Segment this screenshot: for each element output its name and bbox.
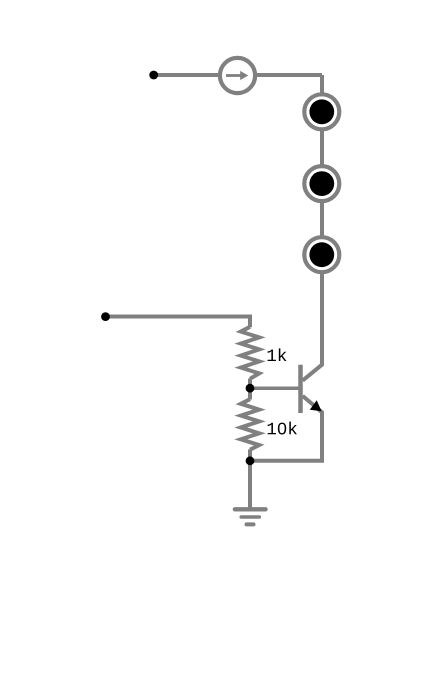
wire emitter to node B — [250, 396, 322, 461]
label 10k — [268, 422, 297, 435]
LED D2 — [304, 166, 339, 201]
resistor R2 10k zigzag — [241, 399, 259, 450]
transistor Q1 NPN — [301, 365, 322, 413]
wire base from node A to transistor base bar — [250, 386, 301, 390]
wire top rail from input terminal to corner — [154, 73, 323, 77]
ground — [235, 509, 266, 524]
wire resistor R1 bottom lead to node A — [248, 379, 252, 389]
node A junction dot — [246, 384, 255, 393]
LED D3 — [304, 237, 339, 272]
wire node B to ground — [248, 461, 252, 509]
wire LED chain (collector column) — [303, 75, 322, 381]
wire from input terminal VIN to resistor top — [106, 317, 250, 328]
label 1k — [268, 348, 287, 361]
current source I1 — [220, 58, 255, 93]
LED D1 — [304, 94, 339, 129]
terminal node current input (dot) — [149, 71, 158, 80]
node B junction dot — [246, 456, 255, 465]
terminal node VIN (dot) — [101, 312, 110, 321]
wire resistor R2 leads — [248, 388, 252, 461]
resistor R1 1k zigzag — [241, 327, 259, 379]
